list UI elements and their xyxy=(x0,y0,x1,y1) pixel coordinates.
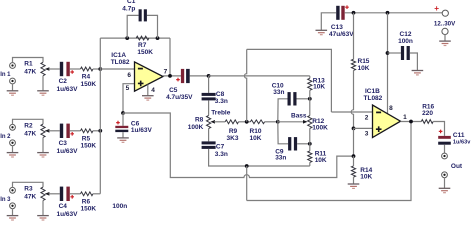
capacitor C10 33n xyxy=(288,92,297,105)
resistor R6 150K xyxy=(81,192,93,196)
svg-text:3: 3 xyxy=(365,130,369,137)
label R15 10K xyxy=(358,58,370,72)
capacitor C13 electrolytic xyxy=(336,5,349,19)
wire out gnd xyxy=(444,178,446,188)
node pin3 xyxy=(352,126,356,130)
label IC1A TL082 xyxy=(111,52,130,66)
wire pot R3 bottom to ground xyxy=(42,201,44,216)
resistor R7 150K xyxy=(136,36,149,40)
svg-text:1u/63V: 1u/63V xyxy=(57,211,79,218)
wire R9R10 junction up (hop) to pin2 xyxy=(244,49,246,121)
label R14 10K xyxy=(360,167,372,180)
svg-text:1: 1 xyxy=(403,114,407,121)
wire to C8 xyxy=(208,76,210,93)
node bus row 1 xyxy=(98,67,102,71)
label C10 33n xyxy=(272,82,285,96)
wire C8 to R8 xyxy=(208,100,210,115)
wire supply rail xyxy=(321,13,336,30)
wire supply gnd xyxy=(444,34,446,41)
node In 2 ground connector xyxy=(10,140,16,146)
node IC1A output xyxy=(168,74,172,78)
label C4 1u/63V xyxy=(57,203,79,218)
resistor R11 10K xyxy=(308,144,312,166)
potentiometer R12 Bass 100K xyxy=(308,99,312,144)
wire C10 to R13 node xyxy=(297,98,310,100)
ground supply xyxy=(439,41,451,45)
svg-text:C2: C2 xyxy=(59,78,68,85)
svg-text:C11: C11 xyxy=(453,132,465,139)
wire pin5 input xyxy=(123,84,135,113)
svg-text:C5: C5 xyxy=(169,87,178,94)
wire bias line xyxy=(123,113,354,178)
wire cap to resistor xyxy=(70,68,81,70)
label R4 150K xyxy=(81,74,97,88)
svg-text:+: + xyxy=(434,4,439,13)
node C9 R12 R11 xyxy=(308,142,312,146)
wire C1 right xyxy=(147,15,158,38)
node R7 left xyxy=(125,36,129,40)
ground pot R3 xyxy=(37,216,49,220)
svg-text:3K3: 3K3 xyxy=(227,135,239,142)
label C2 1u/63V xyxy=(57,78,79,93)
capacitor C12 100n xyxy=(401,46,410,60)
wire feedback top xyxy=(100,37,170,39)
svg-text:47K: 47K xyxy=(24,130,36,137)
label R7 150K xyxy=(137,42,153,56)
svg-text:47K: 47K xyxy=(24,193,36,200)
svg-text:100K: 100K xyxy=(188,124,204,131)
potentiometer R8 Treble 100K xyxy=(207,116,226,129)
wire connector to ground xyxy=(12,84,14,91)
svg-text:7: 7 xyxy=(164,69,168,76)
label C5 4.7u/35V xyxy=(166,87,193,101)
label C11 1u/63V xyxy=(453,132,471,146)
svg-text:C13: C13 xyxy=(331,24,343,31)
svg-text:R4: R4 xyxy=(82,74,91,81)
svg-text:10K: 10K xyxy=(360,173,372,180)
wire C12 left xyxy=(388,52,401,54)
capacitor C5 electrolytic xyxy=(176,69,190,83)
label C7 3.3n xyxy=(215,144,228,158)
ground Out xyxy=(439,188,451,192)
svg-text:33n: 33n xyxy=(275,155,286,162)
wire resistor to bus xyxy=(93,193,100,195)
wire C9 to R11 node xyxy=(297,143,310,145)
svg-text:R5: R5 xyxy=(82,135,91,142)
svg-text:R9: R9 xyxy=(229,128,238,135)
node Out ground connector xyxy=(442,172,448,178)
node R9 R10 junction xyxy=(245,120,249,124)
wire R16 to C11 xyxy=(433,122,444,136)
resistor R13 10K xyxy=(308,78,312,90)
svg-text:In 3: In 3 xyxy=(0,197,11,203)
wire to C9 xyxy=(278,122,288,144)
node supply terminal xyxy=(442,10,448,16)
node IC1B output xyxy=(409,120,413,124)
wire R13 to node xyxy=(309,90,311,99)
label R9 3K3 xyxy=(227,128,239,142)
wire summing bus vertical xyxy=(99,38,101,194)
node supply ground terminal xyxy=(442,28,448,34)
wire IC1A output xyxy=(163,75,181,77)
svg-text:100K: 100K xyxy=(312,124,328,131)
svg-text:C7: C7 xyxy=(216,144,225,151)
wire connector to ground xyxy=(12,146,14,153)
svg-text:100n: 100n xyxy=(112,203,127,210)
svg-text:R2: R2 xyxy=(24,122,33,129)
svg-text:4.7u/35V: 4.7u/35V xyxy=(166,94,193,101)
wire C11 to out xyxy=(444,145,446,153)
label R6 150K xyxy=(81,198,97,212)
wire R13 elbow xyxy=(309,76,311,78)
wire to pin 2 xyxy=(331,111,372,113)
node bottom rail xyxy=(245,164,249,168)
label R13 10K xyxy=(313,77,326,90)
node In 2 connector xyxy=(10,124,16,130)
svg-text:4: 4 xyxy=(151,87,155,94)
label R16 220 xyxy=(422,104,434,117)
svg-text:R6: R6 xyxy=(82,198,91,205)
wire bottom loop xyxy=(247,122,411,201)
resistor R14 10K xyxy=(351,156,355,184)
node C12 xyxy=(386,51,390,55)
svg-text:47u/63V: 47u/63V xyxy=(329,31,354,38)
svg-text:1u/63V: 1u/63V xyxy=(57,86,79,93)
wire C1 left xyxy=(127,15,138,38)
wire pin3 xyxy=(354,127,373,129)
resistor R4 150K xyxy=(81,67,93,71)
capacitor C11 electrolytic xyxy=(438,130,451,145)
ground C13 xyxy=(316,30,328,34)
label R1 47K xyxy=(24,61,36,76)
capacitor C6 electrolytic xyxy=(115,113,128,138)
svg-text:Out: Out xyxy=(451,163,463,170)
svg-text:In 2: In 2 xyxy=(0,134,11,140)
wire pin3 node to R14 node xyxy=(353,128,355,156)
wire cap to resistor xyxy=(70,193,81,195)
label R3 47K xyxy=(24,185,36,200)
resistor R5 150K xyxy=(81,129,93,133)
svg-text:C3: C3 xyxy=(59,140,68,147)
svg-text:TL082: TL082 xyxy=(364,95,383,102)
svg-text:1u/63v: 1u/63v xyxy=(453,140,471,146)
wire feedback top horizontal xyxy=(247,49,332,112)
wire feedback right to output xyxy=(169,38,171,76)
potentiometer R1 xyxy=(41,62,60,75)
node bass center xyxy=(276,120,280,124)
svg-text:3.3n: 3.3n xyxy=(215,98,228,105)
label IC1B TL082 xyxy=(364,88,383,102)
svg-text:2: 2 xyxy=(365,114,369,121)
ground IC1A pin4 xyxy=(142,96,154,100)
svg-text:C4: C4 xyxy=(59,203,68,210)
wire input 3 to pot top xyxy=(13,182,44,187)
svg-text:10K: 10K xyxy=(250,135,262,142)
wire C5 to tone network xyxy=(190,75,209,77)
node tone input xyxy=(207,74,211,78)
svg-text:In 1: In 1 xyxy=(0,72,11,78)
resistor R9 3K3 xyxy=(225,120,238,124)
label C3 1u/63V xyxy=(57,140,79,155)
wire R9 to node xyxy=(239,121,251,123)
node C6 bias xyxy=(121,111,125,115)
capacitor C7 3.3n xyxy=(202,141,216,149)
svg-text:1u/63V: 1u/63V xyxy=(57,148,79,155)
label R5 150K xyxy=(81,135,97,149)
ground In 3 xyxy=(7,216,19,220)
wire IC1B output xyxy=(401,121,422,123)
label C8 3.3n xyxy=(215,91,228,105)
svg-text:150K: 150K xyxy=(81,206,97,213)
capacitor C3 electrolytic xyxy=(60,124,74,138)
wire bass wiper xyxy=(278,121,304,123)
label R8 100K xyxy=(188,117,204,131)
label R11 10K xyxy=(315,151,327,164)
ground C12 xyxy=(412,71,424,75)
svg-text:R3: R3 xyxy=(24,185,33,192)
svg-text:5: 5 xyxy=(126,85,130,92)
svg-text:150K: 150K xyxy=(137,49,153,56)
wire R15 to pin3 node (hop) xyxy=(351,70,353,128)
svg-text:220: 220 xyxy=(422,110,433,117)
resistor R10 10K xyxy=(250,120,264,124)
node R14 xyxy=(352,154,356,158)
ground In 1 xyxy=(7,91,19,95)
ground In 2 xyxy=(7,153,19,157)
wire input 1 to pot top xyxy=(13,58,44,63)
svg-text:10K: 10K xyxy=(315,157,327,164)
svg-text:8: 8 xyxy=(389,105,393,112)
svg-text:C8: C8 xyxy=(216,91,225,98)
wire pin6 input xyxy=(100,68,134,70)
pin 4 stub xyxy=(147,85,149,96)
node pin8 supply xyxy=(386,11,390,15)
op-amp IC1B xyxy=(373,105,401,138)
label C13 47u/63V xyxy=(329,24,354,38)
node In 3 ground connector xyxy=(10,203,16,209)
svg-text:Treble: Treble xyxy=(211,109,231,116)
node In 3 connector xyxy=(10,187,16,193)
potentiometer R2 xyxy=(41,124,60,137)
wire R8 to C7 xyxy=(208,129,210,142)
resistor R15 10K xyxy=(351,13,355,71)
wire supply rail right xyxy=(345,12,443,14)
svg-text:47K: 47K xyxy=(24,69,36,76)
op-amp IC1A xyxy=(135,62,164,91)
label C1 4.7p xyxy=(122,0,135,12)
wire pin8 stub xyxy=(387,13,389,114)
wire cap to resistor xyxy=(70,130,81,132)
node bus row 2 xyxy=(98,129,102,133)
svg-text:4.7p: 4.7p xyxy=(122,5,135,12)
node R7 right xyxy=(156,36,160,40)
svg-text:100n: 100n xyxy=(398,38,413,45)
wire to C10 xyxy=(278,99,288,122)
svg-text:R10: R10 xyxy=(250,128,262,135)
label R12 100K xyxy=(312,118,328,131)
node R15 supply xyxy=(352,11,356,15)
wire bottom rail to output xyxy=(246,166,248,201)
svg-text:R8: R8 xyxy=(195,117,204,124)
svg-text:10K: 10K xyxy=(358,65,370,72)
svg-text:TL082: TL082 xyxy=(111,59,130,66)
svg-text:1u/63V: 1u/63V xyxy=(131,127,153,134)
capacitor C4 electrolytic xyxy=(60,187,74,201)
svg-text:10K: 10K xyxy=(313,84,325,91)
capacitor C8 3.3n xyxy=(202,93,216,101)
svg-text:C1: C1 xyxy=(127,0,136,5)
wire C12 right to ground xyxy=(410,53,418,70)
svg-text:150K: 150K xyxy=(81,81,97,88)
svg-text:3.3n: 3.3n xyxy=(215,151,228,158)
wire pot R2 bottom to ground xyxy=(42,138,44,153)
wire pot R1 bottom to ground xyxy=(42,76,44,91)
wire tone input to R13 xyxy=(209,75,310,77)
node Out connector xyxy=(442,153,448,159)
svg-text:150K: 150K xyxy=(81,143,97,150)
svg-text:Bass: Bass xyxy=(291,112,307,119)
label C6 1u/63V xyxy=(131,121,153,135)
ground pot R2 xyxy=(37,153,49,157)
ground C6 xyxy=(117,138,129,142)
resistor R16 220 xyxy=(421,120,433,124)
svg-text:IC1B: IC1B xyxy=(365,88,380,95)
svg-text:C12: C12 xyxy=(400,31,412,38)
capacitor C2 electrolytic xyxy=(60,62,74,76)
svg-text:R1: R1 xyxy=(24,61,33,68)
label C9 33n xyxy=(275,148,286,161)
wire resistor to bus xyxy=(93,68,100,70)
capacitor C1 4.7p xyxy=(139,9,147,21)
svg-text:12..30V: 12..30V xyxy=(434,21,456,28)
potentiometer R3 xyxy=(41,187,60,200)
wire resistor to bus xyxy=(93,130,100,132)
svg-text:33n: 33n xyxy=(273,89,284,96)
label C12 100n xyxy=(398,31,413,45)
node In 1 connector xyxy=(10,63,16,69)
node C10 R13 R12 xyxy=(308,97,312,101)
wire C7 to bottom rail xyxy=(209,149,310,166)
node In 1 ground connector xyxy=(10,78,16,84)
wire R10 to center node xyxy=(265,121,278,123)
ground pot R1 xyxy=(37,91,49,95)
wire input 2 to pot top xyxy=(13,119,44,124)
ground R14 xyxy=(348,184,360,188)
wire connector to ground xyxy=(12,209,14,216)
label R2 47K xyxy=(24,122,36,137)
label R10 10K xyxy=(250,128,262,142)
svg-text:6: 6 xyxy=(127,72,131,79)
capacitor C9 33n xyxy=(288,137,297,150)
